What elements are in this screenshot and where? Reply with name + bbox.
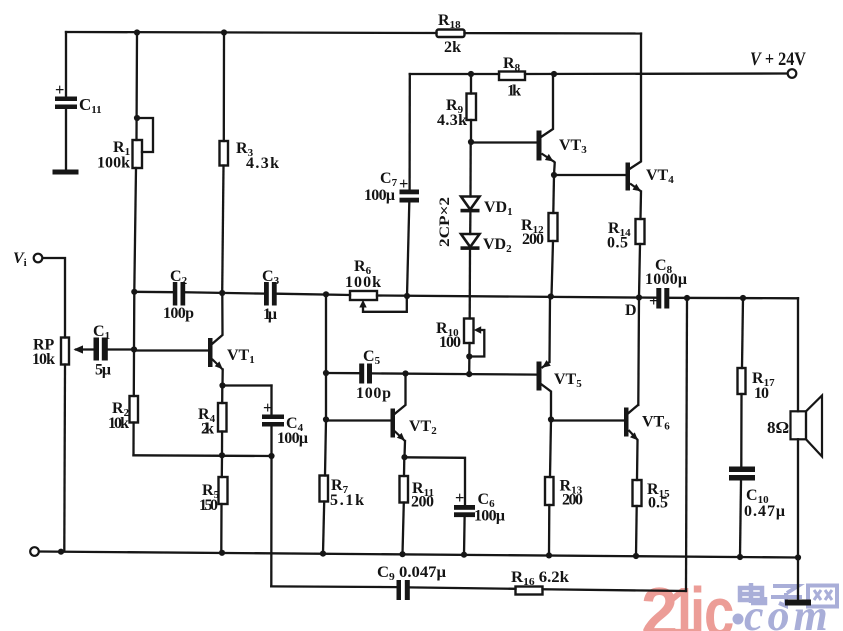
wire VT3 base — [471, 141, 537, 143]
resistor R7 — [320, 476, 329, 502]
svg-text:1k: 1k — [507, 83, 521, 100]
svg-text:2k: 2k — [444, 39, 461, 56]
ground C11 — [53, 170, 79, 175]
resistor R9 — [467, 94, 477, 121]
wire VT2 base — [326, 419, 391, 421]
resistor R8 — [499, 72, 525, 81]
diode VD1 — [461, 197, 480, 210]
svg-text:+: + — [649, 291, 658, 310]
resistor R13 — [545, 477, 554, 505]
svg-text:150: 150 — [199, 497, 218, 514]
wire R5 — [221, 455, 223, 477]
transistor VT6 — [624, 408, 638, 441]
wire C11 column — [65, 32, 67, 97]
svg-text:10k: 10k — [108, 415, 129, 432]
wire R4 — [221, 386, 223, 404]
wire VT4 emitter to R14 — [639, 192, 642, 220]
resistor R1 — [133, 140, 143, 168]
wire VT2 collector — [395, 374, 406, 415]
svg-text:+: + — [55, 80, 64, 99]
wire R13 — [550, 420, 551, 478]
transistor VT3 — [537, 131, 556, 163]
transistor VT4 — [626, 163, 642, 192]
capacitor C5 — [359, 364, 364, 384]
svg-text:100k: 100k — [97, 155, 130, 172]
svg-text:i: i — [690, 574, 705, 631]
wire V24 rail — [410, 73, 499, 75]
watermark CJK dian — [740, 583, 765, 603]
wire VT3 emitter to R12 — [553, 163, 556, 175]
wire top rail — [66, 32, 437, 33]
wire output column — [686, 298, 687, 591]
svg-text:4.3k: 4.3k — [246, 155, 279, 172]
wire R3 column — [223, 33, 225, 142]
resistor R16 — [516, 587, 543, 595]
wire feedback row — [271, 585, 396, 588]
wire VT4 base — [554, 174, 626, 176]
wire VT5 collector down — [541, 384, 551, 420]
wire VT6 collector — [628, 405, 638, 414]
resistor R2 — [130, 396, 139, 423]
transistor VT2 — [391, 409, 406, 442]
potentiometer arrow R6 — [359, 300, 366, 308]
potentiometer arrow RP — [74, 345, 84, 353]
svg-text:2k: 2k — [201, 421, 214, 438]
svg-text:D: D — [625, 302, 637, 319]
wire diode column — [469, 142, 472, 197]
capacitor C7 — [400, 190, 420, 195]
svg-text:100μ: 100μ — [364, 187, 395, 204]
wire R14 bottom to VT6 collector — [638, 244, 640, 405]
svg-text:R16 6.2k: R16 6.2k — [511, 569, 569, 588]
diode VD2 — [461, 234, 480, 247]
terminal V24 — [788, 69, 797, 78]
wire VT1 collector — [212, 293, 223, 344]
wire zobel column — [742, 298, 743, 368]
svg-text:c: c — [704, 574, 734, 631]
wire R1 column — [135, 33, 138, 141]
svg-text:0.5: 0.5 — [648, 495, 668, 512]
svg-text:100p: 100p — [163, 305, 194, 322]
watermark 21ic — [641, 573, 734, 631]
watermark dot — [733, 614, 744, 625]
svg-text:+: + — [455, 488, 464, 507]
svg-text:8Ω: 8Ω — [767, 418, 789, 437]
svg-text:100k: 100k — [345, 274, 381, 291]
svg-text:0.5: 0.5 — [607, 235, 628, 252]
svg-text:100p: 100p — [356, 385, 391, 402]
svg-text:100: 100 — [439, 334, 461, 351]
wire VT3 collector — [541, 74, 553, 137]
wire Vi to RP — [43, 258, 65, 338]
wire R11 — [403, 457, 406, 476]
resistor R18 — [437, 30, 465, 38]
wire R1 tap loop — [137, 118, 153, 152]
wire C4 column — [270, 386, 272, 415]
resistor R17 — [738, 368, 746, 394]
wire R9 — [470, 74, 472, 94]
wire left column x326 — [325, 294, 326, 475]
wire main row segment C2 — [134, 291, 172, 294]
svg-text:100μ: 100μ — [474, 508, 505, 525]
capacitor C9 — [397, 580, 402, 600]
resistor R11 — [400, 476, 409, 503]
svg-text:0.47μ: 0.47μ — [744, 503, 785, 520]
capacitor C8 — [656, 288, 661, 309]
wire VT5 emitter up — [548, 297, 551, 363]
capacitor C11 — [55, 97, 77, 102]
resistor R12 — [549, 213, 558, 241]
svg-text:V + 24V: V + 24V — [750, 49, 806, 70]
wire C7 column — [408, 74, 410, 190]
wire VT4 collector column — [630, 34, 642, 170]
wire R6 tap — [363, 296, 407, 312]
svg-text:100μ: 100μ — [277, 430, 308, 447]
transistor VT1 — [208, 338, 223, 370]
resistor R6 — [350, 291, 377, 300]
capacitor C2 — [173, 282, 178, 306]
potentiometer arrow R10 — [474, 326, 481, 333]
potentiometer RP — [61, 338, 69, 365]
svg-text:200: 200 — [522, 231, 544, 248]
wire RP wiper to C1 — [76, 348, 94, 350]
watermark CJK zi — [771, 586, 802, 606]
svg-text:+: + — [263, 398, 272, 417]
capacitor C3 — [264, 282, 269, 306]
resistor R3 — [220, 141, 229, 166]
wire VT2 emitter node — [403, 441, 406, 457]
wire VT1 emitter node — [221, 370, 223, 386]
svg-text:200: 200 — [562, 492, 583, 509]
svg-text:2CP×2: 2CP×2 — [437, 197, 453, 247]
svg-text:1μ: 1μ — [263, 306, 277, 323]
wire C1 to node — [108, 348, 134, 350]
speaker — [791, 396, 823, 457]
capacitor C4 — [262, 415, 284, 420]
svg-text:4.3k: 4.3k — [437, 112, 467, 129]
wire VT2 emitter to C6 — [405, 457, 466, 505]
wire row 455 — [134, 454, 272, 457]
resistor R5 — [219, 477, 228, 504]
wire C5 row — [326, 372, 359, 375]
resistor R4 — [218, 403, 227, 432]
svg-text:+: + — [399, 174, 408, 193]
transistor VT5 — [537, 360, 551, 390]
resistor R14 — [636, 219, 645, 244]
svg-text:C9 0.047μ: C9 0.047μ — [377, 564, 446, 583]
svg-text:1000μ: 1000μ — [645, 271, 687, 288]
svg-text:200: 200 — [411, 494, 434, 511]
wire speaker column — [797, 298, 799, 411]
terminal ground left — [30, 547, 39, 556]
resistor R15 — [633, 480, 642, 506]
wire C4 to feedback row — [270, 456, 273, 586]
watermark CJK wang — [808, 586, 837, 607]
svg-text:10k: 10k — [32, 351, 55, 368]
capacitor C10 — [729, 467, 755, 473]
svg-text:10: 10 — [754, 385, 769, 402]
wire VT6 emitter to R15 — [636, 441, 639, 480]
terminal Vi — [34, 254, 43, 263]
capacitor C6 — [454, 505, 475, 510]
svg-text:5μ: 5μ — [95, 362, 111, 379]
capacitor C1 — [94, 338, 100, 361]
wire R10 wiper loop — [469, 330, 484, 357]
wire ground rail — [39, 552, 798, 558]
wire VT1 base — [134, 349, 208, 351]
wire VT6 base — [551, 419, 624, 421]
WATERMARK — [641, 573, 837, 631]
svg-text:5.1k: 5.1k — [330, 492, 364, 509]
ground bottom right — [785, 600, 811, 606]
wire RP bottom — [63, 365, 66, 552]
wire VT1 emitter row — [223, 384, 272, 386]
potentiometer R10 — [464, 319, 474, 344]
